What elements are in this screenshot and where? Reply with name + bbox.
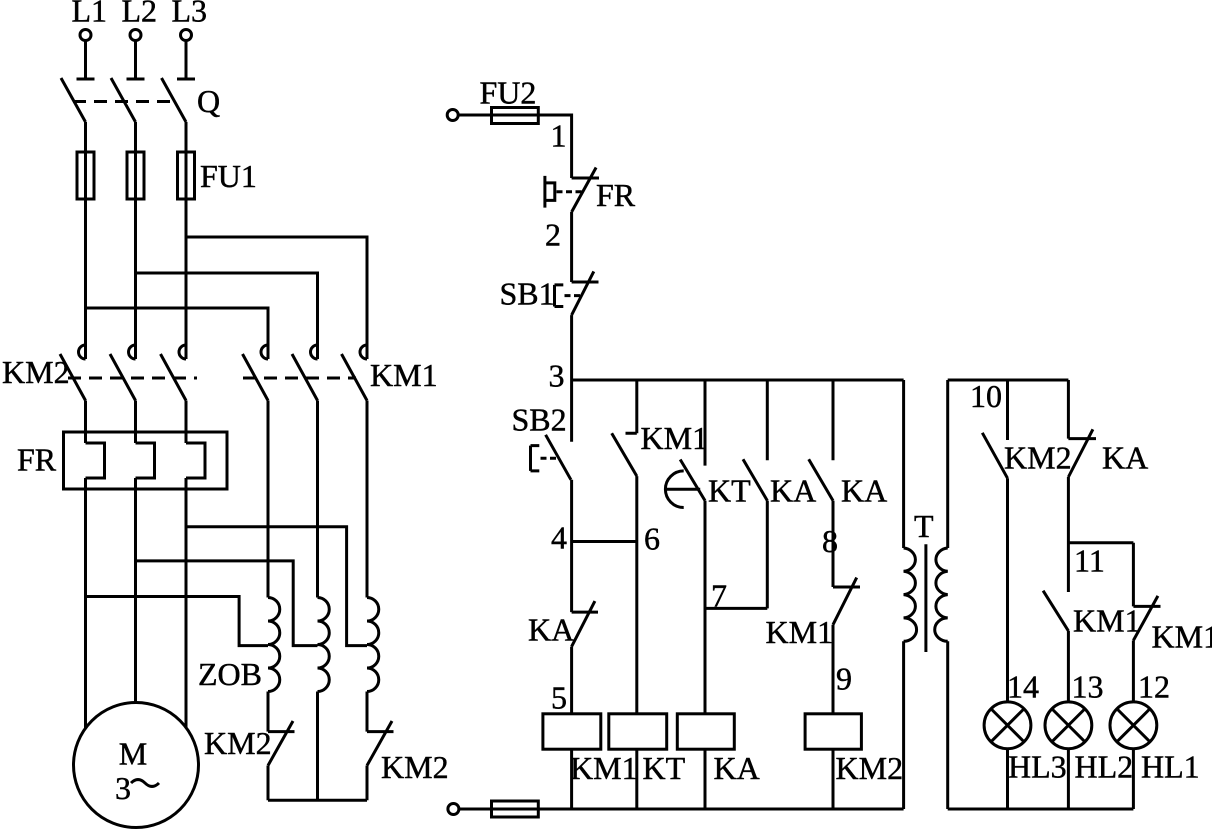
svg-text:KM1: KM1	[1073, 603, 1141, 639]
svg-text:KA: KA	[714, 750, 760, 786]
svg-text:KM1: KM1	[766, 614, 834, 650]
svg-text:HL1: HL1	[1141, 749, 1200, 785]
svg-text:HL2: HL2	[1075, 749, 1134, 785]
svg-text:FU1: FU1	[200, 158, 257, 194]
svg-text:T: T	[914, 508, 934, 544]
svg-text:KM2: KM2	[381, 749, 449, 785]
svg-text:2: 2	[545, 217, 561, 253]
svg-text:FU2: FU2	[480, 75, 537, 111]
svg-text:FR: FR	[596, 177, 636, 213]
svg-text:FR: FR	[17, 442, 57, 478]
svg-text:L2: L2	[122, 0, 158, 29]
svg-text:KT: KT	[708, 473, 751, 509]
svg-text:14: 14	[1007, 669, 1039, 705]
svg-text:9: 9	[836, 661, 852, 697]
svg-text:5: 5	[551, 680, 567, 716]
svg-text:ZOB: ZOB	[198, 656, 262, 692]
svg-text:7: 7	[711, 578, 727, 614]
svg-text:4: 4	[551, 520, 567, 556]
svg-text:3: 3	[549, 358, 565, 394]
svg-text:KM2: KM2	[1004, 440, 1072, 476]
svg-text:Q: Q	[197, 83, 220, 119]
svg-text:6: 6	[644, 521, 660, 557]
svg-text:KA: KA	[1102, 440, 1148, 476]
svg-text:KM1: KM1	[370, 357, 438, 393]
svg-text:KM1: KM1	[1152, 619, 1212, 655]
svg-text:8: 8	[822, 523, 838, 559]
svg-text:L3: L3	[172, 0, 208, 29]
svg-text:KA: KA	[841, 473, 887, 509]
svg-text:SB2: SB2	[512, 402, 567, 438]
svg-text:M: M	[119, 736, 147, 772]
svg-text:KM1: KM1	[570, 750, 638, 786]
svg-text:KM1: KM1	[641, 420, 709, 456]
svg-text:12: 12	[1138, 669, 1170, 705]
svg-text:10: 10	[970, 378, 1002, 414]
svg-text:KA: KA	[528, 612, 574, 648]
svg-text:SB1: SB1	[500, 276, 555, 312]
svg-text:11: 11	[1074, 543, 1105, 579]
svg-text:KA: KA	[770, 473, 816, 509]
svg-text:KT: KT	[643, 750, 686, 786]
svg-text:13: 13	[1072, 669, 1104, 705]
svg-text:3: 3	[115, 770, 131, 806]
svg-text:HL3: HL3	[1008, 749, 1067, 785]
svg-text:L1: L1	[72, 0, 108, 29]
svg-text:KM2: KM2	[204, 725, 272, 761]
svg-text:KM2: KM2	[836, 750, 904, 786]
svg-text:KM2: KM2	[2, 354, 70, 390]
svg-text:1: 1	[551, 118, 567, 154]
